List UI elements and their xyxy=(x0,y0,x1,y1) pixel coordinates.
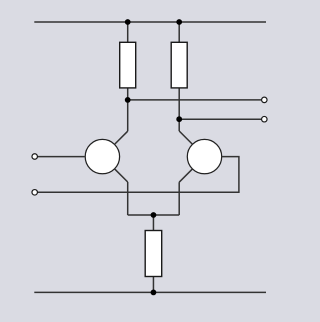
resistor R2 xyxy=(171,42,187,88)
junction dot: tail node xyxy=(151,212,157,218)
wire: Q2 emitter diagonal xyxy=(179,169,192,182)
wire: Q2 emitter vertical xyxy=(178,182,180,215)
junction dot: bottom rail / R3 xyxy=(151,290,157,296)
junction dot: output 1 node xyxy=(125,97,131,103)
wire: R3 bottom to bottom rail xyxy=(152,277,154,293)
wire: rail to R1 top xyxy=(127,22,129,42)
terminal: output 2 xyxy=(262,116,268,122)
wire: output 2 horizontal xyxy=(179,118,261,120)
bottom supply rail xyxy=(34,291,266,293)
junction dot: top rail / R2 xyxy=(176,19,182,25)
wire: rail to R2 top xyxy=(178,22,180,42)
wire: Q1 emitter diagonal xyxy=(115,169,128,182)
wire: R1 bottom to Q1 collector bend xyxy=(127,88,129,131)
transistor Q2 xyxy=(187,139,221,173)
resistor R1 xyxy=(120,42,136,88)
terminal: input 2 xyxy=(32,190,38,196)
wire: output 1 horizontal xyxy=(128,99,261,101)
wire: tail horizontal xyxy=(128,214,180,216)
wire: tail node to R3 top xyxy=(152,215,154,231)
terminal: output 1 xyxy=(262,97,268,103)
wire: Q1 emitter vertical xyxy=(127,182,129,215)
terminal: input 1 xyxy=(32,154,38,160)
transistor Q1 xyxy=(85,139,119,173)
wire: Q2 base loop xyxy=(38,157,239,193)
wire: R2 bottom to Q2 collector bend xyxy=(178,88,180,131)
resistor R3 (tail) xyxy=(145,231,162,277)
junction dot: top rail / R1 xyxy=(125,19,131,25)
junction dot: output 2 node xyxy=(176,116,182,122)
wire: Q1 collector diagonal xyxy=(115,131,128,144)
wire: Q1 base input xyxy=(38,156,85,158)
top supply rail xyxy=(34,21,266,23)
wire: Q2 collector diagonal xyxy=(179,131,192,144)
